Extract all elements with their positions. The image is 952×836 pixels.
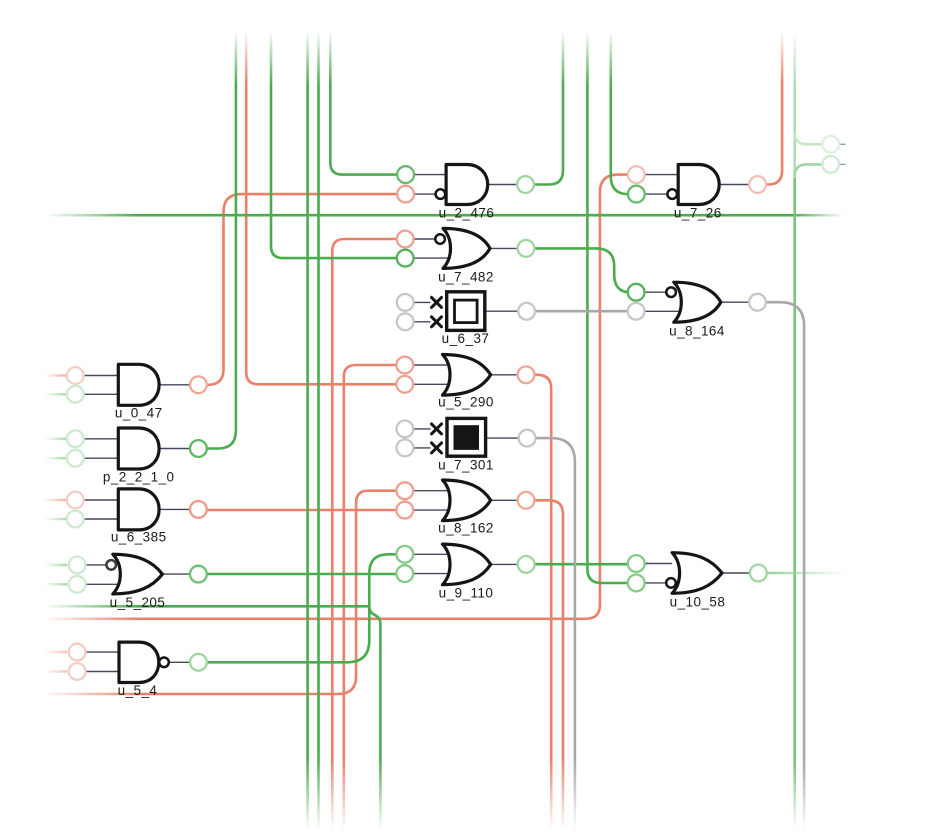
wire net u_5_205.out to u_9_110.in2 bbox=[207, 573, 397, 576]
wire net from top to u_10_58.in2 bbox=[587, 30, 627, 583]
svg-text:u_7_301: u_7_301 bbox=[438, 458, 494, 473]
pin off-canvas B bbox=[822, 156, 839, 173]
svg-text:u_6_385: u_6_385 bbox=[111, 530, 167, 545]
or-gate u_10_58 (inverted input 2) bbox=[628, 553, 767, 610]
wire net from top to u_2_476.in1 bbox=[330, 30, 397, 175]
svg-text:p_2_2_1_0: p_2_2_1_0 bbox=[103, 469, 175, 484]
wire stub of off-canvas pin A bbox=[839, 143, 845, 145]
wire vertical net at x=794.7 with pin branches bbox=[795, 30, 823, 830]
constant-box u_6_37 (hollow square, unconnected inputs) bbox=[397, 292, 535, 346]
wire input stub u_5_205.in2 bbox=[44, 583, 67, 586]
wire net u_7_482.out to u_8_164.in1 bbox=[534, 248, 630, 292]
wire net u_2_476.out to top bbox=[534, 30, 563, 185]
wire net from left to u_8_162.in1 bbox=[44, 491, 396, 694]
or-gate u_9_110 bbox=[396, 544, 534, 600]
wire input stub u_5_205.in1 bbox=[44, 564, 67, 567]
wire net u_5_290.out to bottom bbox=[534, 375, 551, 830]
and-gate u_6_385 bbox=[67, 489, 207, 545]
svg-text:u_7_26: u_7_26 bbox=[674, 206, 722, 221]
or-gate u_8_164 (inverted input 1) bbox=[628, 282, 766, 338]
wire input stub p_2_2_1_0.in2 bbox=[44, 457, 67, 460]
svg-text:u_5_205: u_5_205 bbox=[110, 595, 166, 610]
svg-text:u_5_290: u_5_290 bbox=[438, 395, 494, 410]
svg-text:u_6_37: u_6_37 bbox=[442, 331, 490, 346]
and-gate u_7_26 (inverted input 2) bbox=[628, 165, 766, 221]
wire net u_5_4.out to u_9_110.in1 with branches bbox=[44, 554, 396, 830]
wire input stub u_5_4.in2 bbox=[44, 670, 67, 673]
wire vertical pass-through at x=307.6 bbox=[306, 30, 309, 830]
svg-text:u_0_47: u_0_47 bbox=[115, 406, 163, 421]
and-gate u_0_47 bbox=[67, 364, 207, 420]
wire net from top to u_5_290.in2 bbox=[246, 30, 396, 384]
svg-text:u_9_110: u_9_110 bbox=[439, 586, 494, 601]
svg-text:u_10_58: u_10_58 bbox=[670, 595, 726, 610]
wire net u_8_164.out to bottom bbox=[766, 302, 804, 830]
wire net u_6_37.out to u_8_164.in2 bbox=[535, 310, 628, 313]
svg-text:u_5_4: u_5_4 bbox=[118, 683, 158, 698]
wire input stub u_6_385.in2 bbox=[44, 518, 67, 521]
nand-gate u_5_4 bbox=[69, 642, 207, 698]
wire input stub p_2_2_1_0.in1 bbox=[44, 437, 67, 440]
wire net u_6_385.out to u_8_162.in2 bbox=[207, 509, 397, 512]
wire input stub u_0_47.in1 bbox=[44, 374, 67, 377]
or-gate u_5_290 bbox=[396, 355, 534, 410]
or-gate u_7_482 (inverted input 1) bbox=[397, 228, 535, 284]
wire net from top to u_7_26.in2 bbox=[611, 30, 628, 194]
svg-text:u_7_482: u_7_482 bbox=[438, 270, 494, 285]
svg-text:u_8_162: u_8_162 bbox=[438, 521, 494, 536]
wire net from bottom to u_7_482.in1 bbox=[332, 239, 397, 830]
and-gate u_2_476 (inverted input 2) bbox=[397, 165, 534, 221]
wire net from bottom to u_5_290.in1 bbox=[344, 365, 397, 830]
pin off-canvas A bbox=[822, 136, 839, 153]
constant-box u_7_301 (filled square, unconnected inputs) bbox=[397, 418, 536, 472]
or-gate u_5_205 (inverted input 1) bbox=[69, 554, 207, 610]
wire vertical pass-through at x=318.5 bbox=[317, 30, 320, 830]
wire net from top to u_7_482.in2 bbox=[271, 30, 397, 258]
wire net p_2_2_1_0.out to top bbox=[207, 30, 236, 449]
wire stub of off-canvas pin B bbox=[839, 163, 845, 165]
wire net u_0_47.out to u_2_476.in2 bbox=[207, 194, 397, 385]
wire net u_7_301.out to bottom bbox=[536, 438, 575, 830]
wire input stub u_5_4.in1 bbox=[44, 651, 67, 654]
and-gate p_2_2_1_0 bbox=[67, 428, 207, 484]
svg-text:u_2_476: u_2_476 bbox=[439, 206, 495, 221]
wire input stub u_0_47.in2 bbox=[44, 393, 67, 396]
wire horizontal net at y=214.7 bbox=[44, 214, 844, 217]
wire net from left to u_7_26.in1 bbox=[44, 175, 628, 619]
or-gate u_8_162 bbox=[396, 480, 534, 536]
wire net u_10_58.out to right bbox=[767, 572, 844, 575]
wire net u_8_162.out to bottom bbox=[534, 500, 563, 830]
wire net u_7_26.out to top bbox=[766, 30, 782, 185]
wire net u_9_110.out to u_10_58.in1 bbox=[535, 563, 628, 566]
svg-text:u_8_164: u_8_164 bbox=[669, 324, 725, 339]
wire input stub u_6_385.in1 bbox=[44, 499, 67, 502]
